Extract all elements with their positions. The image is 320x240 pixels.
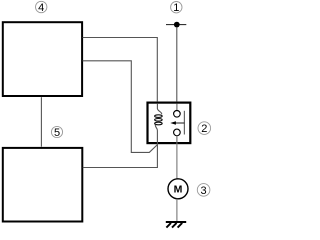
- box U5 (control unit): [3, 148, 83, 222]
- wire motor to ground: [176, 199, 178, 222]
- svg-text:4: 4: [38, 2, 44, 14]
- motor M3 circle: [168, 179, 188, 199]
- relay switch top pin: [176, 104, 178, 111]
- svg-text:5: 5: [54, 127, 60, 139]
- relay coil top pin: [157, 103, 161, 114]
- ground symbol: [166, 222, 186, 228]
- svg-text:2: 2: [201, 123, 207, 135]
- svg-text:1: 1: [173, 2, 179, 14]
- relay actuation arrow: [170, 121, 184, 125]
- relay switch top contact circle: [174, 111, 181, 118]
- label circle 5: [51, 126, 62, 138]
- wire B: box4 right to relay coil bottom (jog): [83, 61, 158, 153]
- wire box4 bottom to box5 top: [40, 97, 42, 147]
- coil bottom pin outside box down to wire to box5: [83, 143, 158, 167]
- label circle 2: [198, 122, 211, 135]
- wire relay to motor: [176, 143, 178, 179]
- label circle 4: [36, 1, 47, 14]
- relay switch bottom pin: [176, 135, 178, 143]
- svg-text:3: 3: [201, 185, 207, 197]
- relay box U2: [148, 103, 191, 144]
- relay switch bar: [183, 111, 185, 135]
- relay switch bottom contact circle: [174, 129, 181, 136]
- svg-text:M: M: [174, 184, 183, 196]
- node 1 horizontal: [166, 24, 186, 26]
- relay coil bottom pin: [155, 125, 157, 144]
- wire node1 down to relay switch top: [176, 27, 178, 101]
- label circle 1: [171, 2, 182, 15]
- relay coil loops: [155, 115, 163, 125]
- wire A: box4 right to relay coil top: [83, 38, 158, 102]
- label circle 3: [197, 184, 210, 197]
- node 1 junction dot: [174, 22, 180, 28]
- box U4 (control unit): [3, 22, 82, 96]
